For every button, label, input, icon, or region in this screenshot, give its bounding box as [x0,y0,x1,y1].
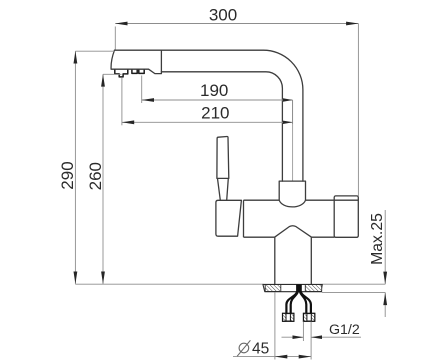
lever handle [217,136,229,200]
countertop underside reference line [322,291,386,293]
dimension 190 [142,76,293,104]
left valve cap [216,200,242,236]
svg-text:210: 210 [201,104,229,123]
countertop cut section right block (hatched) [305,285,321,292]
dimension Max.25 right [384,210,386,317]
riser centerline [292,100,294,181]
svg-text:260: 260 [86,162,105,190]
hose end fitting left (G1/2 thread) [283,313,315,321]
base cone transition [275,226,312,285]
right valve cap [334,196,358,237]
riser collar joint on body [279,181,305,207]
spout outer profile (head top edge, outer bend, riser right edge) [111,50,303,181]
aerator nozzles under spray head [115,70,144,77]
dimension 260 left [103,74,122,284]
dimension diameter 45 bottom [233,292,311,359]
flexible supply hoses [286,284,311,313]
spout spray head [111,50,161,73]
horizontal valve body [244,200,359,237]
dimension 290 left [75,51,114,284]
countertop cut section (hatched) [263,284,322,291]
countertop surface line [75,283,385,285]
svg-text:45: 45 [252,341,269,358]
dimension 300 top [115,24,358,197]
dimension 210 [122,78,293,125]
svg-text:290: 290 [58,161,77,189]
svg-text:190: 190 [200,81,228,100]
hose end fitting right (G1/2 thread) [304,313,315,321]
svg-text:300: 300 [209,5,237,24]
dimension G1/2 bottom [282,322,362,341]
base column d45 [275,237,312,284]
svg-text:G1/2: G1/2 [329,322,360,338]
svg-text:Max.25: Max.25 [369,213,386,265]
spout inner profile (arm bottom edge, inner bend, riser left edge) [161,72,282,181]
